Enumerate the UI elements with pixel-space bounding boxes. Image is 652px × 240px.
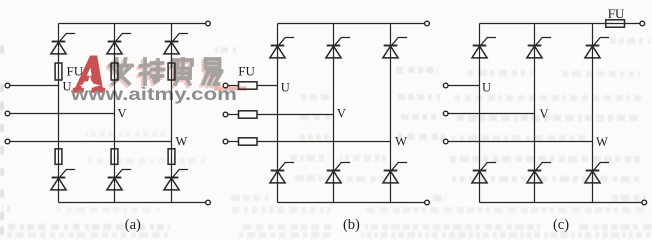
wire (b) V stub [228, 114, 239, 116]
terminal (b) phase U input [223, 83, 228, 88]
wire (c) top bus [480, 23, 641, 25]
wire (a) U phase [10, 85, 59, 87]
fuse FU (a) top arm 3 [168, 63, 175, 80]
wire (c) W phase [448, 141, 593, 143]
svg-text:FU: FU [238, 64, 255, 79]
wire (a) branch 3 vertical [171, 24, 173, 203]
thyristor (b) top arm 1 [270, 38, 294, 58]
watermark logo red A [73, 46, 106, 103]
fuse FU (b) phase W [239, 138, 258, 145]
wire (b) V phase [257, 114, 334, 116]
terminal (a) bottom output [206, 200, 211, 205]
wire (b) top bus [278, 23, 425, 25]
thyristor (b) bottom arm 1 [270, 163, 294, 183]
svg-text:(b): (b) [343, 217, 360, 233]
thyristor (c) bottom arm 3 [585, 163, 609, 183]
thyristor (c) top arm 1 [472, 38, 496, 58]
svg-text:W: W [176, 135, 188, 149]
svg-text:FU: FU [67, 64, 84, 79]
terminal (b) phase W input [223, 139, 228, 144]
terminal (c) phase U input [443, 83, 448, 88]
fuse FU (a) bottom arm 3 [168, 149, 175, 165]
fuse FU (a) top arm 2 [111, 63, 118, 80]
thyristor (a) bottom arm 2 [107, 170, 131, 190]
thyristor (a) bottom arm 1 [51, 170, 75, 190]
thyristor (a) top arm 2 [107, 34, 131, 54]
thyristor (a) bottom arm 3 [164, 170, 188, 190]
svg-text:W: W [395, 135, 407, 149]
terminal (c) bottom output [642, 200, 647, 205]
wire (b) W phase [257, 141, 391, 143]
wire (b) branch 1 vertical [277, 24, 279, 203]
wire (b) bottom bus [278, 202, 425, 204]
svg-text:V: V [540, 107, 549, 121]
thyristor (c) bottom arm 1 [472, 163, 496, 183]
thyristor (b) top arm 2 [326, 38, 350, 58]
wire (b) branch 2 vertical [333, 24, 335, 203]
fuse FU (a) top arm 1 [55, 63, 62, 80]
svg-text:V: V [337, 107, 346, 121]
wire (b) W stub [228, 141, 239, 143]
terminal (b) bottom output [425, 200, 430, 205]
svg-text:(a): (a) [125, 217, 141, 233]
terminal (c) top output [640, 21, 645, 26]
thyristor (c) top arm 2 [527, 38, 551, 58]
thyristor (c) bottom arm 2 [527, 163, 551, 183]
wire (c) V phase [448, 113, 535, 115]
thyristor (a) top arm 1 [51, 34, 75, 54]
terminal (a) phase W input [5, 139, 10, 144]
svg-text:V: V [118, 107, 127, 121]
wire (a) V phase [10, 113, 115, 115]
wire (b) U phase [257, 85, 278, 87]
terminal (a) top output [206, 21, 211, 26]
thyristor (b) bottom arm 2 [326, 163, 350, 183]
wire (c) branch 2 vertical [534, 24, 536, 203]
wire (a) bottom bus [59, 202, 206, 204]
fuse FU (a) bottom arm 1 [55, 149, 62, 165]
wire (c) bottom bus [480, 202, 643, 204]
fuse FU (b) phase U [239, 82, 258, 89]
fuse FU (c) output [606, 20, 625, 27]
svg-text:U: U [63, 80, 72, 94]
fuse FU (a) bottom arm 2 [111, 149, 118, 165]
svg-text:www.aitmy.com: www.aitmy.com [70, 84, 237, 104]
wire (a) branch 1 vertical [58, 24, 60, 203]
terminal (b) top output [425, 21, 430, 26]
svg-text:FU: FU [608, 6, 625, 21]
thyristor (c) top arm 3 [585, 38, 609, 58]
terminal (b) phase V input [223, 112, 228, 117]
terminal (c) phase V input [443, 111, 448, 116]
wire (b) branch 3 vertical [390, 24, 392, 203]
wire (a) branch 2 vertical [114, 24, 116, 203]
thyristor (b) top arm 3 [383, 38, 407, 58]
thyristor (b) bottom arm 3 [383, 163, 407, 183]
terminal (a) phase U input [5, 83, 10, 88]
watermark red underline band [214, 86, 247, 90]
wire (a) top bus [59, 23, 206, 25]
svg-text:(c): (c) [553, 217, 569, 233]
fuse FU (b) phase V [239, 111, 258, 118]
svg-text:U: U [482, 81, 491, 95]
watermark text aitmy brand [108, 59, 222, 86]
terminal (c) phase W input [443, 139, 448, 144]
wire (a) W phase [10, 141, 172, 143]
terminal (a) phase V input [5, 111, 10, 116]
wire (c) U phase [448, 85, 480, 87]
svg-text:W: W [596, 135, 608, 149]
wire (c) branch 1 vertical [479, 24, 481, 203]
wire (c) branch 3 vertical [592, 24, 594, 203]
svg-text:U: U [281, 81, 290, 95]
thyristor (a) top arm 3 [164, 34, 188, 54]
wire (b) U stub [228, 85, 239, 87]
